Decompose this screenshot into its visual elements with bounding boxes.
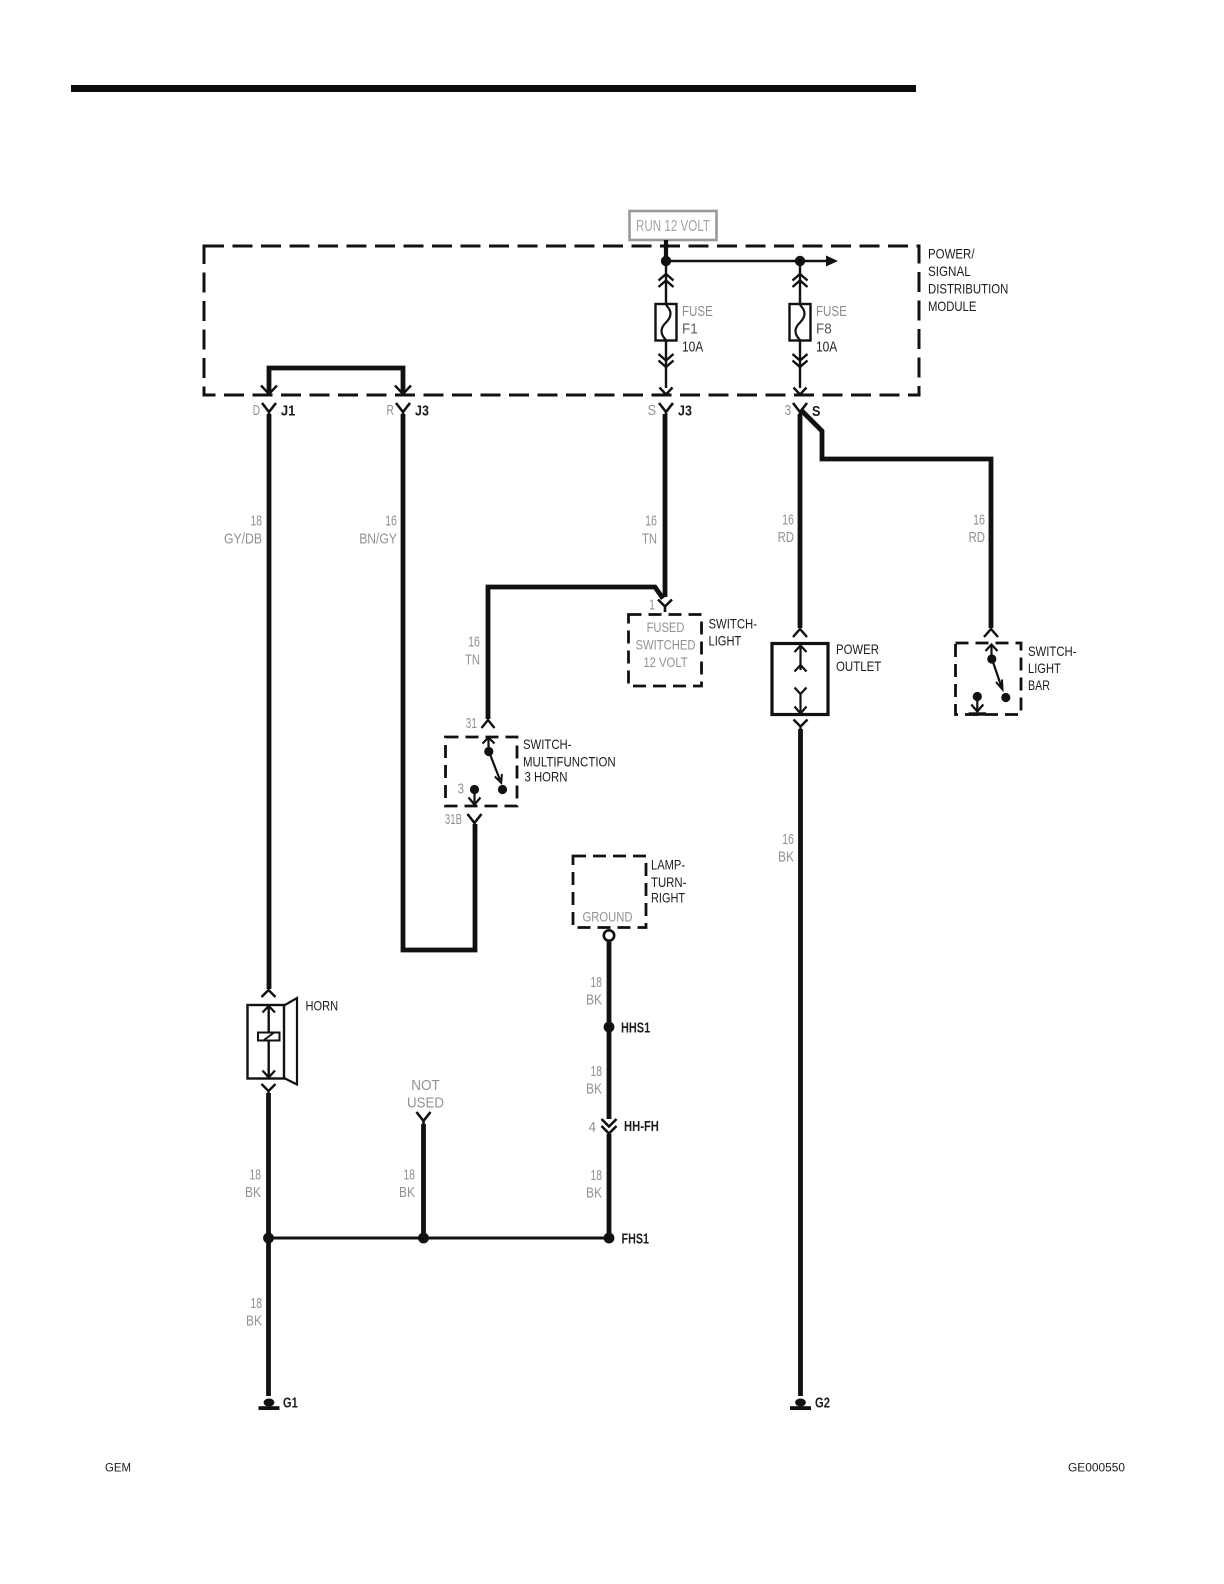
node NOT USED	[407, 1077, 444, 1112]
label 16 TN branch	[465, 634, 480, 669]
svg-text:TURN-: TURN-	[651, 874, 687, 890]
header bar	[71, 85, 916, 92]
svg-text:G1: G1	[283, 1396, 298, 1412]
svg-text:12 VOLT: 12 VOLT	[643, 655, 687, 670]
label lamp-turn-right	[651, 857, 687, 906]
power outlet box	[772, 644, 828, 715]
svg-text:10A: 10A	[816, 340, 838, 356]
node junction not used	[418, 1233, 429, 1244]
wire HH-FH to FHS1	[607, 1134, 612, 1238]
power/signal distribution module box	[204, 246, 919, 395]
svg-text:18: 18	[251, 513, 263, 530]
switch-light bar connector top	[984, 629, 998, 637]
svg-text:18: 18	[404, 1167, 416, 1184]
svg-text:RUN 12 VOLT: RUN 12 VOLT	[636, 218, 710, 235]
svg-text:GROUND: GROUND	[583, 910, 633, 925]
svg-text:J1: J1	[281, 404, 295, 420]
wire branch to multifunction switch	[488, 587, 663, 719]
svg-text:16: 16	[782, 831, 794, 848]
connector pin R J3	[387, 402, 429, 420]
label 18 GY/DB	[224, 513, 262, 548]
svg-text:TN: TN	[465, 652, 480, 669]
wire power outlet ground to G2	[798, 729, 803, 1396]
svg-text:3: 3	[785, 402, 792, 419]
svg-text:GY/DB: GY/DB	[224, 531, 262, 548]
label switch-multifunction 3 horn	[523, 736, 616, 785]
svg-text:SIGNAL: SIGNAL	[928, 263, 971, 279]
connector pin S J3	[648, 402, 692, 420]
wire horn ground	[266, 1093, 271, 1238]
svg-text:USED: USED	[407, 1095, 444, 1112]
connector pin 1 fused switched	[649, 597, 672, 614]
svg-text:HH-FH: HH-FH	[624, 1119, 659, 1135]
svg-text:3: 3	[458, 781, 465, 798]
switch multifunction horn box	[446, 737, 518, 806]
svg-text:16: 16	[782, 512, 794, 529]
switch-light bar box	[956, 643, 1022, 716]
svg-text:BK: BK	[586, 1081, 602, 1098]
svg-text:BK: BK	[778, 849, 794, 866]
svg-text:POWER: POWER	[836, 641, 879, 657]
wire internal bus with arrow	[666, 256, 838, 267]
wire S J3 down to switch-light feed	[663, 414, 668, 597]
wire module internal U link J1 to J3	[261, 368, 411, 394]
svg-text:RIGHT: RIGHT	[651, 890, 685, 906]
svg-text:HORN: HORN	[306, 998, 339, 1014]
connector 4 HH-FH	[589, 1119, 659, 1136]
svg-text:18: 18	[591, 1167, 603, 1184]
wire not used to ground bus	[421, 1124, 426, 1238]
svg-text:GE000550: GE000550	[1068, 1463, 1125, 1475]
connector not used	[417, 1112, 431, 1127]
svg-text:F8: F8	[816, 322, 832, 338]
label 16 RD right branch	[969, 512, 986, 547]
wire lamp ground to HHS1	[607, 941, 612, 1027]
svg-text:BN/GY: BN/GY	[359, 531, 397, 548]
label 16 RD left branch	[778, 512, 795, 547]
power outlet connector top	[793, 629, 807, 637]
svg-text:FUSED: FUSED	[647, 620, 685, 635]
svg-text:10A: 10A	[682, 340, 704, 356]
label 18 BK horn	[245, 1167, 261, 1202]
svg-text:3 HORN: 3 HORN	[525, 769, 568, 785]
label 18 BK lamp	[586, 974, 602, 1009]
svg-text:FUSE: FUSE	[816, 304, 847, 320]
ground G1	[259, 1396, 298, 1412]
node FUSED SWITCHED 12 VOLT box	[629, 615, 702, 687]
label 16 BK	[778, 831, 794, 866]
svg-text:SWITCH-: SWITCH-	[709, 616, 758, 632]
svg-text:BK: BK	[246, 1313, 262, 1330]
svg-text:OUTLET: OUTLET	[836, 658, 882, 674]
svg-text:G2: G2	[815, 1396, 830, 1412]
horn connector top	[262, 990, 276, 997]
svg-text:BK: BK	[586, 992, 602, 1009]
svg-text:BK: BK	[245, 1184, 261, 1201]
svg-text:POWER/: POWER/	[928, 246, 975, 262]
power outlet connector bottom	[794, 720, 808, 732]
label 18 BK not used	[399, 1167, 415, 1202]
svg-text:J3: J3	[415, 404, 429, 420]
connector pin 31B	[445, 811, 482, 829]
node FHS1	[604, 1232, 649, 1248]
horn connector bottom	[262, 1084, 276, 1096]
label 16 TN	[642, 513, 657, 548]
svg-text:RD: RD	[778, 529, 795, 546]
svg-text:GEM: GEM	[105, 1463, 131, 1475]
svg-text:TN: TN	[642, 531, 657, 548]
svg-text:BK: BK	[399, 1184, 415, 1201]
svg-text:R: R	[387, 402, 395, 419]
svg-text:SWITCH-: SWITCH-	[523, 736, 572, 752]
svg-text:S: S	[812, 404, 821, 420]
svg-text:FUSE: FUSE	[682, 304, 713, 320]
fuse F8	[790, 261, 848, 395]
wire horn switch return to R J3	[403, 414, 475, 950]
label 18 BK G1	[246, 1295, 262, 1330]
svg-text:4: 4	[589, 1119, 597, 1136]
connector lamp ground eyelet	[604, 930, 614, 940]
wire HHS1 to HH-FH	[607, 1027, 612, 1119]
wire RUN 12 VOLT feed into module	[664, 240, 668, 261]
wire to G1	[266, 1238, 271, 1396]
svg-text:LIGHT: LIGHT	[709, 633, 742, 649]
svg-text:18: 18	[591, 974, 603, 991]
label 16 BN/GY	[359, 513, 397, 548]
label 18 BK mid	[586, 1063, 602, 1098]
fuse F1	[656, 261, 714, 395]
svg-text:LIGHT: LIGHT	[1028, 660, 1061, 676]
svg-text:F1: F1	[682, 322, 698, 338]
svg-text:MODULE: MODULE	[928, 298, 976, 314]
svg-text:16: 16	[973, 512, 985, 529]
svg-text:HHS1: HHS1	[621, 1021, 650, 1037]
svg-text:BK: BK	[586, 1185, 602, 1202]
svg-text:D: D	[253, 402, 260, 419]
svg-text:1: 1	[649, 597, 655, 614]
lamp turn right box	[573, 856, 646, 928]
svg-text:FHS1: FHS1	[622, 1232, 650, 1248]
svg-text:31B: 31B	[445, 811, 462, 828]
svg-text:BAR: BAR	[1028, 677, 1050, 693]
wire S branch to switch-light bar	[801, 410, 991, 628]
svg-text:18: 18	[591, 1063, 603, 1080]
node junction horn	[263, 1233, 274, 1244]
svg-text:16: 16	[468, 634, 480, 651]
svg-text:MULTIFUNCTION: MULTIFUNCTION	[523, 754, 616, 770]
svg-text:SWITCHED: SWITCHED	[635, 638, 695, 653]
horn	[248, 998, 298, 1085]
label switch-light	[709, 616, 758, 649]
svg-text:31: 31	[466, 715, 477, 732]
node junction at fuse F1	[661, 256, 671, 266]
svg-text:NOT: NOT	[411, 1077, 440, 1094]
ground G2	[790, 1396, 830, 1412]
connector pin D J1	[253, 402, 296, 420]
svg-text:16: 16	[385, 513, 397, 530]
label power outlet	[836, 641, 882, 674]
node junction at fuse F8	[795, 256, 805, 266]
wire horn feed J1 to horn	[267, 414, 272, 989]
svg-text:LAMP-: LAMP-	[651, 857, 685, 873]
wire ground bus	[269, 1237, 610, 1240]
svg-text:18: 18	[251, 1295, 263, 1312]
svg-text:18: 18	[250, 1167, 262, 1184]
svg-text:SWITCH-: SWITCH-	[1028, 643, 1077, 659]
svg-text:DISTRIBUTION: DISTRIBUTION	[928, 281, 1008, 297]
wire S to power outlet	[798, 414, 803, 628]
node RUN 12 VOLT label box	[630, 211, 717, 240]
connector pin 31	[466, 715, 495, 732]
svg-text:RD: RD	[969, 529, 986, 546]
svg-text:J3: J3	[678, 404, 692, 420]
label switch-light bar	[1028, 643, 1077, 693]
node HHS1	[604, 1021, 651, 1037]
svg-text:16: 16	[645, 513, 657, 530]
connector pin 3 S	[785, 402, 821, 420]
svg-text:S: S	[648, 402, 656, 419]
label 18 BK lower	[586, 1167, 602, 1202]
